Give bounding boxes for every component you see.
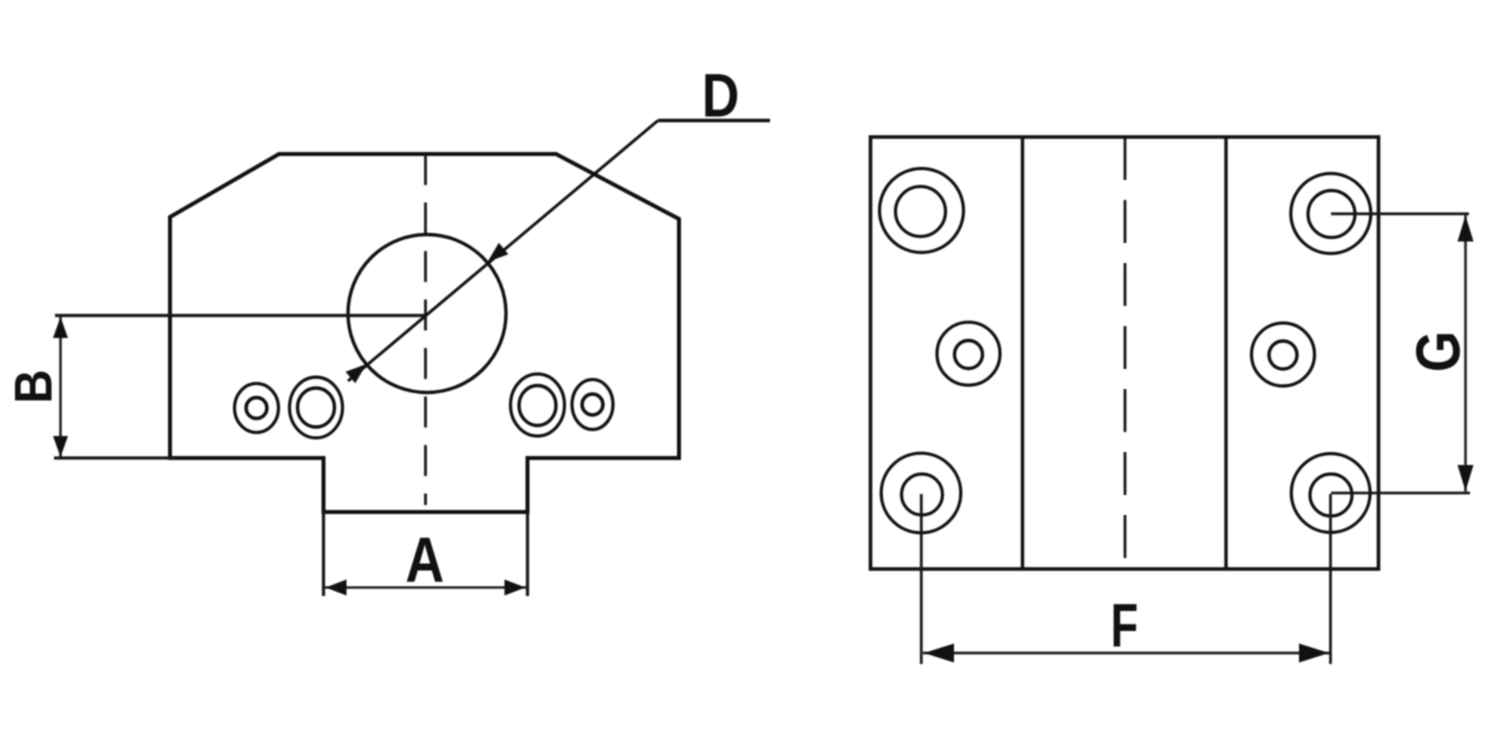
top-left counterbore outer <box>880 169 964 253</box>
G dimension line <box>1464 215 1467 492</box>
middle-left hole outer <box>937 322 1000 385</box>
A arrow right <box>505 580 526 596</box>
svg-text:D: D <box>702 62 739 130</box>
bottom-left counterbore outer <box>881 453 961 533</box>
left clamp big circle inner <box>298 388 335 427</box>
A right extension line <box>526 512 529 596</box>
bottom-left counterbore inner <box>902 474 943 515</box>
A left extension line <box>322 512 325 596</box>
right clamp big circle inner <box>519 386 556 426</box>
left clamp small circle outer <box>235 384 279 433</box>
svg-text:G: G <box>1403 331 1473 372</box>
D leader diagonal <box>348 121 658 382</box>
D arrow upper <box>488 243 509 262</box>
F dimension line <box>923 652 1330 655</box>
inner vertical line left <box>1021 137 1024 569</box>
F arrow left <box>924 644 954 663</box>
B bottom extension line <box>54 456 176 459</box>
svg-text:B: B <box>4 369 63 403</box>
top-right counterbore inner <box>1308 191 1355 238</box>
inner vertical line right <box>1224 137 1227 569</box>
right clamp small circle outer <box>572 380 613 430</box>
F right extension line <box>1329 494 1332 664</box>
top-right counterbore outer <box>1291 174 1371 254</box>
right clamp small circle inner <box>582 394 603 415</box>
top-left counterbore inner <box>896 187 946 237</box>
G bottom leader <box>1331 492 1470 495</box>
left clamp small circle inner <box>246 398 267 419</box>
vertical centerline left view <box>424 154 427 505</box>
D leader horizontal <box>658 119 770 122</box>
svg-text:A: A <box>405 524 444 597</box>
svg-text:F: F <box>1111 592 1139 660</box>
B top extension line <box>55 314 427 317</box>
middle-right hole outer <box>1252 323 1315 386</box>
A dimension line <box>324 586 527 589</box>
D arrow lower <box>346 364 367 383</box>
F left extension line <box>920 494 923 664</box>
middle-right hole inner <box>1269 341 1297 369</box>
B arrow up <box>53 317 68 338</box>
middle-left hole inner <box>955 341 983 369</box>
bottom-right counterbore outer <box>1291 454 1370 533</box>
G arrow up <box>1458 216 1474 242</box>
left view block outline <box>170 154 679 512</box>
G top leader <box>1331 212 1469 215</box>
left clamp big circle outer <box>290 377 343 438</box>
B dimension line <box>59 317 62 457</box>
vertical centerline right view <box>1124 137 1127 569</box>
F arrow right <box>1299 644 1329 663</box>
G arrow down <box>1458 465 1474 491</box>
right clamp big circle outer <box>511 374 565 436</box>
bottom-right counterbore inner <box>1310 474 1352 516</box>
bore circle <box>348 235 506 393</box>
B arrow down <box>53 436 68 457</box>
right view body rectangle <box>871 137 1379 569</box>
A arrow left <box>326 580 347 596</box>
